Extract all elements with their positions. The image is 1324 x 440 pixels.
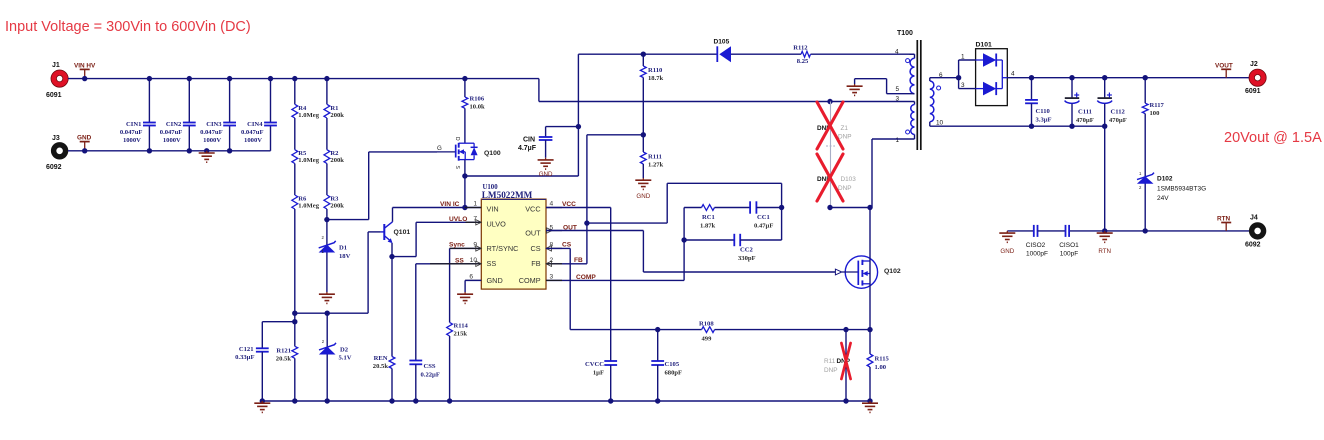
ground aux winding (847, 84, 863, 95)
svg-text:1.87k: 1.87k (700, 223, 716, 230)
svg-text:1.27k: 1.27k (648, 162, 664, 169)
resistor R2 (324, 150, 344, 165)
pin number 10 (470, 257, 478, 264)
junction top rail CIN3 (227, 76, 232, 81)
resistor R115 (867, 330, 889, 401)
resistor REN (373, 257, 395, 401)
svg-text:COMP: COMP (519, 276, 541, 285)
svg-text:1.0Meg: 1.0Meg (298, 203, 319, 210)
resistor R11x DNP (824, 330, 851, 401)
svg-text:200k: 200k (330, 203, 344, 210)
ground RTN flag (1097, 231, 1113, 255)
pin COMP name (519, 276, 541, 285)
junction bottom rail x846 (843, 398, 848, 403)
svg-text:1000V: 1000V (244, 137, 262, 144)
svg-text:3.3µF: 3.3µF (1036, 117, 1052, 124)
label UVLO (449, 216, 467, 223)
svg-text:6092: 6092 (46, 164, 62, 171)
svg-text:COMP: COMP (576, 274, 596, 281)
junction gnd rail at GND flag (82, 148, 87, 153)
svg-text:VCC: VCC (525, 204, 540, 213)
svg-text:SS: SS (455, 257, 464, 264)
svg-text:ULVO: ULVO (487, 220, 507, 229)
svg-text:DNP: DNP (838, 134, 852, 141)
pin arrow ULVO (476, 220, 482, 225)
svg-text:Q100: Q100 (484, 150, 501, 157)
svg-text:1SMB5934BT3G: 1SMB5934BT3G (1157, 186, 1206, 193)
net flag GND at J3 (77, 135, 92, 151)
svg-text:D103: D103 (841, 176, 857, 183)
label VCC (562, 201, 576, 208)
svg-text:SS: SS (487, 259, 497, 268)
junction C110 bottom (1029, 124, 1034, 129)
svg-text:RTN: RTN (1217, 216, 1231, 223)
svg-text:GND: GND (539, 171, 553, 178)
label SS (455, 257, 464, 264)
junction bottom rail x870 (867, 398, 872, 403)
wire Q100 source (464, 160, 466, 208)
svg-text:VOUT: VOUT (1215, 63, 1233, 70)
wire boost top line (578, 53, 914, 55)
junction bottom rail x415 (413, 398, 418, 403)
junction CC1 right (779, 205, 784, 210)
wire CISO2-CISO1 (1038, 230, 1066, 232)
net flag RTN (1217, 216, 1231, 231)
svg-text:CS: CS (562, 242, 572, 249)
capacitor CVCC (585, 361, 617, 401)
wire R3 to D1 node (326, 209, 328, 220)
wire Q101 emitter (391, 243, 393, 257)
zener Z1 DNP (817, 102, 852, 154)
transistor Q101 (381, 222, 411, 243)
svg-text:1000V: 1000V (203, 137, 221, 144)
junction C110 top (1029, 75, 1034, 80)
svg-text:0.47µF: 0.47µF (754, 223, 773, 230)
svg-text:1000pF: 1000pF (1026, 251, 1048, 258)
ground IC pin6 (457, 292, 473, 303)
pin number 7 (473, 215, 477, 222)
wire R3 node to gate riser (327, 219, 369, 221)
op-amp U1 LM5022 box (481, 184, 546, 289)
capacitor CIN3 (200, 79, 236, 151)
wire VCC net (546, 208, 611, 362)
svg-text:J2: J2 (1250, 61, 1258, 68)
svg-text:CIN2: CIN2 (166, 121, 182, 128)
svg-text:1000V: 1000V (123, 137, 141, 144)
wire primary pin5 to aux ground (855, 79, 915, 94)
svg-text:0.22µF: 0.22µF (421, 372, 440, 379)
svg-text:R4: R4 (298, 105, 307, 112)
svg-text:R6: R6 (298, 196, 307, 203)
capacitor CIN1 (120, 79, 156, 151)
pin number 9 (473, 241, 477, 248)
svg-text:R114: R114 (454, 323, 469, 330)
svg-text:Sync: Sync (449, 242, 465, 249)
pin VCC name (525, 204, 540, 213)
svg-text:3: 3 (896, 96, 900, 103)
junction gnd rail CIN3 (227, 148, 232, 153)
zener D102 (1137, 171, 1206, 231)
output rating text (1224, 130, 1322, 146)
junction top rail CIN1 (147, 76, 152, 81)
junction top rail R106 (462, 76, 467, 81)
svg-text:J1: J1 (52, 62, 60, 69)
zener D2 (319, 313, 352, 401)
svg-text:R106: R106 (470, 96, 485, 103)
wire Q102 drain (869, 208, 871, 330)
primary winding bottom T100 (896, 96, 915, 145)
pin VIN name (487, 204, 499, 213)
svg-text:FB: FB (574, 257, 583, 264)
resistor R114 (447, 322, 469, 401)
svg-text:0.047uF: 0.047uF (120, 129, 143, 136)
pin stub lines U100 (430, 208, 562, 281)
svg-text:CIN3: CIN3 (206, 121, 222, 128)
label VIN IC (440, 201, 460, 208)
svg-text:24V: 24V (1157, 195, 1169, 202)
capacitor C112 (1097, 78, 1126, 231)
svg-text:OUT: OUT (525, 228, 541, 237)
wire primary2 pin3 lead (914, 102, 916, 105)
pin number 4 (550, 201, 554, 208)
junction C111 bottom (1069, 124, 1074, 129)
resistor R3 (324, 195, 344, 210)
capacitor CIN4 (241, 79, 277, 151)
pin arrow SS (476, 261, 482, 266)
diode D105 (714, 39, 732, 63)
svg-text:20.5k: 20.5k (276, 356, 292, 363)
pin number 2 (550, 257, 554, 264)
junction D102 bottom (1143, 228, 1148, 233)
junction Q102 drain node (867, 205, 872, 210)
svg-text:215k: 215k (454, 331, 468, 338)
capacitor CIN2 (160, 79, 196, 151)
svg-text:470µF: 470µF (1076, 117, 1094, 124)
wire CIN node up (577, 54, 579, 126)
primary winding top T100 (895, 49, 915, 94)
junction CS sense node DNP (843, 327, 848, 332)
wire comp top loop (587, 183, 782, 223)
svg-text:DNP: DNP (824, 367, 838, 374)
transformer core (917, 40, 921, 150)
resistor R6 (292, 195, 320, 210)
junction C112 top (1102, 75, 1107, 80)
junction CS sense node R115 (867, 327, 872, 332)
svg-text:7: 7 (473, 215, 477, 222)
junction gnd rail CIN2 (187, 148, 192, 153)
junction top rail at VIN HV (82, 76, 87, 81)
wire FB net (546, 135, 643, 264)
svg-text:470µF: 470µF (1109, 117, 1127, 124)
junction Z1 top (827, 99, 832, 104)
svg-text:DNP: DNP (837, 358, 851, 365)
capacitor CSS (409, 361, 439, 402)
svg-text:R108: R108 (699, 321, 714, 328)
svg-text:18V: 18V (339, 253, 351, 260)
svg-text:10: 10 (936, 120, 944, 127)
svg-text:CISO2: CISO2 (1026, 242, 1046, 249)
svg-text:4: 4 (895, 49, 899, 56)
wire D101 pin3 (959, 78, 976, 89)
junction C112 pin10 (1102, 124, 1107, 129)
junction top rail R4 (292, 76, 297, 81)
svg-text:Q101: Q101 (394, 229, 411, 236)
mosfet Q100 (437, 137, 501, 170)
svg-text:D102: D102 (1157, 176, 1173, 183)
svg-text:CC2: CC2 (740, 247, 754, 254)
junction bottom rail x262 (260, 398, 265, 403)
red X over R11x (841, 343, 850, 379)
svg-text:R2: R2 (330, 150, 339, 157)
svg-text:20.5k: 20.5k (373, 363, 389, 370)
svg-text:6: 6 (469, 273, 473, 280)
svg-text:1: 1 (473, 201, 477, 208)
junction bottom rail x610 (608, 398, 613, 403)
svg-text:5: 5 (896, 86, 900, 93)
svg-text:4: 4 (550, 201, 554, 208)
wire D101 pin4 output (1007, 77, 1249, 79)
svg-text:1.0Meg: 1.0Meg (298, 157, 319, 164)
red X over Z1 (817, 102, 843, 149)
svg-text:1.00: 1.00 (875, 364, 887, 371)
pin CS name (530, 244, 540, 253)
svg-text:100: 100 (1150, 110, 1161, 117)
wire top input rail (68, 79, 915, 102)
junction CC2 left (681, 237, 686, 242)
junction lower node R4col (292, 311, 297, 316)
svg-text:RC1: RC1 (702, 214, 715, 221)
label OUT (563, 224, 577, 231)
resistor R1 (324, 104, 344, 119)
pin GND name (487, 276, 503, 285)
wire R6 to lower node (294, 209, 296, 322)
wire GND pin 6 (465, 280, 481, 292)
net flag VIN HV (74, 63, 96, 79)
pin FB name (531, 259, 540, 268)
svg-text:GND: GND (77, 135, 92, 142)
svg-text:CIN: CIN (523, 137, 535, 144)
svg-text:Z1: Z1 (841, 125, 849, 132)
svg-text:1.0Meg: 1.0Meg (298, 112, 319, 119)
svg-text:R121: R121 (276, 348, 291, 355)
junction Q100 source (462, 173, 467, 178)
svg-text:GND: GND (487, 276, 503, 285)
junction R117 top (1143, 75, 1148, 80)
wire RTN rail (1007, 230, 1249, 232)
connector J1 (46, 62, 68, 99)
wire C121 tap (262, 322, 295, 349)
pin arrow CS (546, 246, 552, 251)
wire R1 column (326, 79, 328, 195)
svg-text:C110: C110 (1036, 108, 1051, 115)
ground RTN left (999, 231, 1015, 255)
connector J4 (1245, 215, 1264, 249)
wire Q101 base (368, 232, 381, 313)
wire secondary pin6 (930, 78, 959, 81)
wire emitter to UVLO (392, 222, 481, 256)
svg-text:DNP: DNP (838, 185, 852, 192)
svg-text:R3: R3 (330, 196, 339, 203)
junction RTN C112 (1102, 228, 1107, 233)
junction R3/D1 (324, 217, 329, 222)
svg-text:GND: GND (636, 193, 650, 200)
svg-text:R115: R115 (875, 356, 890, 363)
svg-text:D2: D2 (340, 347, 349, 354)
junction VIN IC (462, 205, 467, 210)
junction D103 bottom (827, 205, 832, 210)
svg-text:9: 9 (473, 241, 477, 248)
svg-text:3: 3 (550, 273, 554, 280)
capacitor CIN (518, 127, 578, 158)
svg-text:6091: 6091 (46, 92, 62, 99)
svg-text:CIN4: CIN4 (247, 121, 263, 128)
pin RT/SYNC name (487, 244, 519, 253)
svg-text:G: G (437, 145, 442, 152)
pin number 1 (473, 201, 477, 208)
ground bottom rail left (254, 401, 270, 412)
wire source to CIN node (465, 127, 579, 176)
svg-text:CVCC: CVCC (585, 361, 604, 368)
junction top rail CIN2 (187, 76, 192, 81)
capacitor C121 (235, 346, 269, 401)
svg-text:0.047uF: 0.047uF (241, 129, 264, 136)
svg-text:VIN HV: VIN HV (74, 63, 96, 70)
wire primary pin4 lead (910, 54, 915, 58)
capacitor C110 (1025, 78, 1051, 127)
pin arrow FB (546, 261, 552, 266)
wire secondary pin10 (930, 122, 1105, 126)
junction R110 top (641, 52, 646, 57)
wire Q100 gate (369, 151, 437, 153)
svg-text:REN: REN (374, 355, 388, 362)
pin arrow OUT (547, 228, 553, 233)
resistor R111 (640, 135, 663, 178)
svg-text:UVLO: UVLO (449, 216, 467, 223)
pin arrow RT/SYNC (476, 246, 482, 251)
svg-text:C111: C111 (1078, 109, 1092, 116)
zener D1 (319, 220, 351, 292)
svg-text:CISO1: CISO1 (1059, 242, 1079, 249)
junction FB comp tap (584, 220, 589, 225)
junction C105 top (655, 327, 660, 332)
capacitor CC2 (684, 208, 782, 263)
svg-text:6091: 6091 (1245, 88, 1261, 95)
svg-text:J3: J3 (52, 135, 60, 142)
wire OUT net (546, 231, 835, 273)
svg-text:6092: 6092 (1245, 242, 1261, 249)
svg-text:Q102: Q102 (884, 268, 901, 275)
svg-text:FB: FB (531, 259, 540, 268)
svg-text:D: D (454, 137, 460, 141)
svg-text:R11: R11 (824, 358, 836, 365)
ground input rail (199, 151, 215, 162)
svg-text:Input Voltage = 300Vin to 600V: Input Voltage = 300Vin to 600Vin (DC) (5, 19, 251, 35)
pin number 8 (550, 241, 554, 248)
wire SS net (416, 264, 482, 361)
resistor R117 (1142, 78, 1164, 171)
svg-text:20Vout @ 1.5A: 20Vout @ 1.5A (1224, 130, 1322, 146)
connector J2 (1245, 61, 1266, 95)
svg-text:0.33µF: 0.33µF (235, 354, 254, 361)
pin number 5 (550, 225, 554, 232)
label CS (562, 242, 572, 249)
svg-text:R111: R111 (648, 154, 662, 161)
svg-text:1: 1 (896, 137, 900, 144)
junction R110 bottom (641, 132, 646, 137)
svg-text:C105: C105 (665, 361, 680, 368)
net flag VOUT (1215, 63, 1233, 78)
svg-text:D105: D105 (714, 39, 730, 46)
wire Q101 collector to VIN IC (393, 208, 465, 222)
ground D1 (319, 292, 335, 303)
junction top rail CIN4 (268, 76, 273, 81)
junction top rail R1 (324, 76, 329, 81)
label Sync (449, 242, 465, 249)
svg-text:200k: 200k (330, 157, 344, 164)
svg-text:4: 4 (1011, 71, 1015, 78)
label FB (574, 257, 583, 264)
svg-text:0.047uF: 0.047uF (160, 129, 183, 136)
svg-text:R1: R1 (330, 105, 338, 112)
svg-text:10.0k: 10.0k (470, 103, 486, 110)
capacitor C111 (1065, 78, 1094, 127)
svg-text:680pF: 680pF (665, 370, 683, 377)
diode D101 (961, 42, 1015, 106)
svg-text:100pF: 100pF (1060, 251, 1078, 258)
wire Sync net (450, 248, 482, 322)
junction C121 tap (292, 319, 297, 324)
svg-text:499: 499 (702, 336, 713, 343)
svg-text:J4: J4 (1250, 215, 1258, 222)
svg-text:D1: D1 (339, 245, 347, 252)
svg-text:CS: CS (530, 244, 540, 253)
junction D101 input (956, 75, 961, 80)
capacitor CC1 (750, 201, 782, 229)
junction gnd rail CIN1 (147, 148, 152, 153)
wire D101 pin1 (959, 60, 976, 78)
wire bottom ground rail (262, 400, 870, 402)
pin ULVO name (487, 220, 507, 229)
svg-text:CIN1: CIN1 (126, 121, 141, 128)
svg-text:C112: C112 (1111, 109, 1126, 116)
wire input gnd rail (68, 150, 271, 152)
junction bottom rail x449 (447, 398, 452, 403)
junction bottom rail x392 (389, 398, 394, 403)
label COMP (576, 274, 596, 281)
wire CS net (546, 248, 702, 329)
junction bottom rail x294 (292, 398, 297, 403)
resistor R121 (276, 322, 298, 401)
svg-text:T100: T100 (897, 30, 913, 37)
svg-text:4.7µF: 4.7µF (518, 145, 537, 152)
wire D103 to drain node (830, 207, 870, 209)
svg-text:18.7k: 18.7k (648, 75, 664, 82)
capacitor CISO1 (1059, 225, 1079, 258)
zener D103 DNP (817, 153, 856, 208)
wire gate riser (368, 152, 370, 220)
svg-text:VIN IC: VIN IC (440, 201, 460, 208)
svg-text:VIN: VIN (487, 204, 499, 213)
pin number 3 (550, 273, 554, 280)
svg-text:C121: C121 (239, 346, 254, 353)
svg-text:1000V: 1000V (163, 137, 181, 144)
red X over D103 (817, 154, 843, 201)
svg-text:R110: R110 (648, 67, 663, 74)
resistor RC1 (684, 205, 750, 230)
svg-text:D101: D101 (976, 42, 992, 49)
junction D2 top (325, 311, 330, 316)
svg-text:CC1: CC1 (757, 214, 770, 221)
